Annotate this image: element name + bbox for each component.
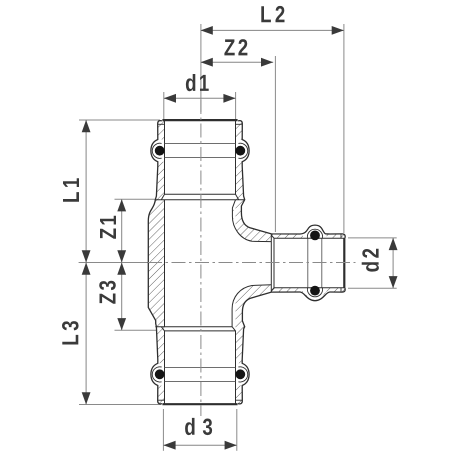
o-ring pocket clear areas (151, 140, 164, 162)
branch bore bottom line (274, 287, 344, 289)
branch face curl inner ticks (340, 234, 342, 238)
extension line d2 bottom (348, 287, 397, 289)
top socket exterior step (155, 199, 244, 201)
label L1 (63, 178, 79, 201)
bore interior clear area (branch + crotch) (232, 195, 343, 331)
fitting left wall hatched section (148, 121, 164, 404)
label Z1 (100, 216, 116, 239)
extension line Z1 stop (115, 198, 157, 200)
branch socket o-ring groove interior lines (307, 238, 309, 287)
branch bore top line (274, 237, 344, 239)
bottom socket o-ring groove interior lines (165, 367, 236, 369)
extension line d3 right (236, 409, 238, 451)
extension line d2 top (348, 237, 397, 239)
branch socket stop shoulder (273, 238, 275, 287)
extension line branch stop to Z2 (274, 56, 276, 232)
top end face thick line (162, 119, 237, 121)
top face curl inner ticks (158, 123, 164, 125)
bottom socket exterior step (155, 326, 232, 328)
inner bore right lower with crotch curve (232, 285, 271, 404)
fitting right wall and branch hatched section (232, 121, 345, 404)
top socket o-ring groove interior lines (165, 142, 236, 144)
bottom end face thick line (162, 403, 237, 405)
extension line branch axis left (79, 262, 156, 264)
label L3 (62, 321, 79, 344)
bottom socket stop shoulder (165, 330, 236, 332)
horizontal centerline (148, 262, 356, 264)
vertical centerline (200, 100, 202, 416)
extension line top face to L1 (79, 119, 160, 121)
extension line d3 left (162, 409, 164, 451)
label Z3 (99, 281, 116, 304)
outer contour right side with branch (238, 121, 345, 404)
branch end face thick line (343, 238, 345, 288)
extension line from center axis to top dims (200, 24, 202, 112)
dimension d2 (392, 238, 394, 288)
extension line d1 left (163, 92, 165, 119)
branch socket inner bulge arcs (307, 229, 322, 238)
label d3 (185, 418, 212, 435)
outer contour left side (148, 121, 162, 404)
dimension L2 (201, 29, 344, 31)
dimension Z3 (121, 263, 123, 331)
bottom face curl inner ticks (158, 399, 164, 401)
inner bore right upper with crotch curve (232, 121, 271, 242)
label Z2 (224, 39, 247, 55)
dimension d3 (163, 444, 236, 446)
label d1 (186, 74, 209, 91)
extension line bottom face to L3 (79, 404, 161, 406)
branch socket exterior step (270, 234, 272, 292)
dimension L1 (85, 120, 87, 263)
bottom socket inner bulge arcs (152, 367, 161, 382)
o-ring cross sections (black dots) (155, 146, 165, 156)
extension line Z3 stop (115, 329, 157, 331)
label L2 (261, 6, 284, 22)
extension line branch end to L2 (343, 24, 345, 233)
top socket stop shoulder (165, 193, 236, 195)
dimension d1 (164, 97, 236, 99)
dimension Z2 (201, 61, 274, 63)
top socket inner bulge arcs (152, 143, 161, 158)
dimension Z1 (121, 199, 123, 262)
branch stop chamfers (271, 235, 274, 291)
extension line d1 right (235, 92, 237, 119)
inner bore line left (161, 121, 164, 404)
dimension L3 (85, 263, 87, 405)
label d2 (362, 249, 379, 272)
